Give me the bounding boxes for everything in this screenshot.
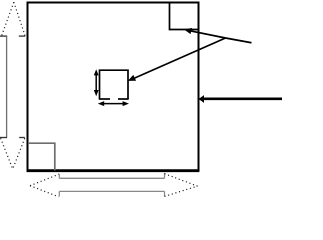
left hollow dimension arrow: down head (0, 138, 25, 170)
left hollow dimension arrow: shaft (6, 36, 8, 137)
callout arrow to center die (128, 38, 226, 81)
bottom hollow dimension arrow: left head (30, 174, 60, 197)
thick arrow pointing at right edge (199, 95, 282, 103)
callout tail segment (right) (226, 38, 252, 43)
wafer outline (big square) (27, 3, 200, 171)
bottom hollow dimension arrow: shaft lines (59, 178, 164, 191)
left hollow dimension arrow: up head (0, 2, 25, 36)
vertical dimension double-arrow left of center square (94, 69, 99, 96)
bottom hollow dimension arrow: right head (165, 173, 198, 197)
die square bottom-left (gray) (28, 143, 55, 170)
die square top-right (170, 3, 199, 30)
center die square (gap in bottom edge) (99, 70, 129, 99)
callout arrow to top-right die (184, 28, 225, 38)
horizontal dimension double-arrow below center square (98, 101, 129, 106)
